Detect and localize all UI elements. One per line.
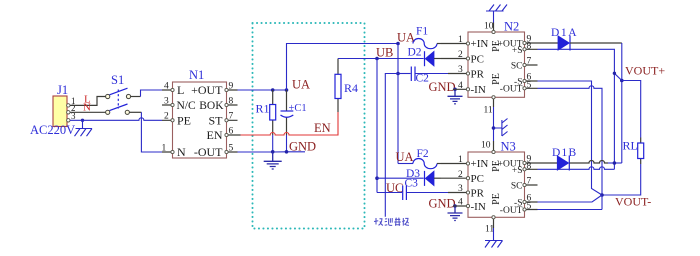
svg-text:D1B: D1B [552, 147, 577, 159]
svg-text:VOUT-: VOUT- [615, 195, 651, 209]
earth ground below J1 pin 3 [75, 119, 93, 137]
wire C2 branch left and down to share bus [385, 74, 398, 217]
power module N3 [441, 140, 538, 235]
wire S1a to N1 pin4 [131, 90, 163, 97]
wire N1 -OUT / GND row [238, 151, 306, 153]
svg-text:8: 8 [527, 161, 532, 171]
svg-text:UA: UA [396, 150, 414, 164]
svg-text:UA: UA [292, 78, 310, 92]
svg-text:+S: +S [512, 166, 523, 176]
capacitor C3 [403, 178, 448, 201]
svg-text:4: 4 [458, 81, 463, 91]
capacitor C1 (polarized) [281, 90, 307, 135]
svg-text:PE: PE [177, 113, 191, 127]
wire EN (red) from N1 pin6, hops over R1 and C1 wires [241, 112, 339, 135]
svg-text:+OUT: +OUT [191, 83, 223, 97]
node UA top rail junction [396, 42, 400, 46]
svg-text:D2: D2 [408, 47, 422, 59]
svg-text:+IN: +IN [471, 158, 489, 170]
svg-text:SC: SC [511, 61, 523, 71]
diode D1A [538, 27, 579, 51]
wire N3 +S row (hops) up to D1B row [538, 167, 615, 170]
svg-text:1: 1 [458, 35, 463, 45]
connector J1 [53, 83, 76, 127]
svg-text:J1: J1 [57, 83, 68, 97]
wire VOUT+ to RL top [622, 81, 641, 138]
svg-text:2: 2 [164, 112, 169, 122]
wire UA corner to F2 [398, 163, 413, 165]
diode D3 [377, 168, 441, 186]
wire VOUT+ vertical (D1A down to D1B row) [621, 43, 623, 163]
wire UB row from R4 top to D2 [338, 58, 424, 60]
svg-text:N/C: N/C [177, 100, 197, 112]
svg-text:3: 3 [458, 65, 463, 75]
dotted selection box [253, 23, 365, 229]
node C2 junction [396, 72, 400, 76]
wire D1A cathode to VOUT+ corner [570, 42, 622, 44]
svg-text:5: 5 [229, 143, 234, 153]
svg-text:N2: N2 [504, 20, 519, 34]
svg-text:1: 1 [458, 155, 463, 165]
svg-text:R1: R1 [256, 102, 270, 116]
svg-text:S1: S1 [111, 73, 124, 87]
wire J1 pin3 to N1 pin2 (PE), hops over N wire [70, 118, 162, 121]
svg-text:UB: UB [376, 46, 393, 60]
svg-text:F2: F2 [417, 148, 429, 160]
svg-text:11: 11 [484, 106, 493, 116]
svg-text:1: 1 [162, 143, 167, 153]
svg-text:GND: GND [289, 140, 316, 154]
svg-text:10: 10 [481, 141, 491, 151]
svg-text:F1: F1 [416, 26, 428, 38]
node D1B/+S junction [613, 161, 617, 165]
wire UA rail up and right [287, 44, 399, 91]
svg-text:PC: PC [471, 173, 484, 185]
switch S1 (ganged DPST) [106, 73, 131, 114]
PE earth (sideways) between modules [494, 119, 508, 137]
svg-text:3: 3 [164, 96, 169, 106]
svg-text:4: 4 [458, 198, 463, 208]
wire N1 +OUT row [238, 89, 287, 91]
svg-text:EN: EN [314, 121, 331, 135]
svg-text:5: 5 [527, 80, 532, 90]
wire N2 -S down to VOUT- diagonal [538, 81, 603, 195]
svg-text:PE: PE [491, 73, 502, 85]
wire UB down to D3 and UC rows [376, 59, 378, 193]
PE earth below N3 pin11 [485, 228, 503, 248]
fuse F2 [413, 148, 437, 169]
wire N2 -OUT down (hops -S wire) to VOUT- [538, 86, 603, 210]
power ground symbol [264, 152, 282, 169]
svg-text:10: 10 [484, 22, 494, 32]
svg-text:ST: ST [208, 113, 223, 127]
svg-text:-IN: -IN [471, 201, 486, 213]
node PE mid junction [492, 126, 496, 130]
wire N2 +S down, branch diagonal into VOUT+ [538, 49, 622, 169]
node UA (junction dots on +OUT row) [271, 88, 288, 92]
svg-text:7: 7 [527, 177, 532, 187]
node VOUT+ junction [620, 79, 624, 83]
svg-text:7: 7 [527, 57, 532, 67]
svg-text:SC: SC [511, 181, 523, 191]
svg-text:+C1: +C1 [289, 103, 307, 114]
svg-text:AC220V: AC220V [30, 123, 75, 137]
svg-text:N: N [83, 102, 91, 114]
resistor R4 [335, 59, 358, 113]
svg-text:8: 8 [527, 41, 532, 51]
wire R1 bottom to GND row [272, 135, 274, 152]
resistor R1 [256, 90, 276, 135]
svg-text:PC: PC [471, 54, 484, 66]
wire N3 -OUT row up to VOUT- [538, 209, 603, 211]
svg-text:PR: PR [471, 69, 485, 81]
svg-text:UA: UA [397, 31, 415, 45]
svg-text:-OUT: -OUT [500, 206, 523, 216]
svg-text:GND: GND [429, 197, 456, 211]
svg-text:-OUT: -OUT [194, 145, 223, 159]
diode D1B [538, 147, 578, 171]
svg-text:6: 6 [229, 126, 234, 136]
svg-text:EN: EN [207, 128, 223, 142]
svg-text:R4: R4 [344, 81, 358, 95]
node UB junction [375, 57, 379, 61]
svg-text:5: 5 [527, 202, 532, 212]
wire F2 to N3 pin1 [437, 163, 441, 165]
wire C1 bottom to GND row [286, 135, 288, 152]
node D3 branch [375, 176, 379, 180]
wire D1B cathode to VOUT+ vertical (hops -S and -OUT verticals) [569, 161, 608, 163]
svg-text:4: 4 [164, 81, 169, 91]
fuse F1 [413, 26, 437, 49]
svg-text:2: 2 [458, 170, 463, 180]
wire J1 pin1 to S1a [70, 97, 106, 106]
PE earth above N2 pin10 [486, 5, 507, 23]
wire J1 pin2 to S1b [70, 111, 106, 113]
wire F1 to N2 pin1 [437, 43, 441, 45]
svg-text:RL: RL [623, 139, 638, 153]
svg-text:PR: PR [471, 188, 485, 200]
svg-text:3: 3 [458, 184, 463, 194]
ground at N2 pin4 [448, 88, 463, 104]
resistor RL [623, 138, 644, 165]
svg-text:-IN: -IN [471, 84, 486, 96]
svg-text:2: 2 [458, 50, 463, 60]
svg-text:BOK: BOK [199, 100, 224, 112]
capacitor C2 [398, 67, 448, 85]
svg-text:VOUT+: VOUT+ [625, 64, 665, 78]
svg-text:+IN: +IN [471, 38, 489, 50]
svg-text:C2: C2 [416, 73, 430, 85]
svg-text:-OUT: -OUT [500, 85, 523, 95]
svg-text:+S: +S [512, 46, 523, 56]
wire RL bottom to VOUT- [602, 164, 641, 195]
power module N1 [162, 68, 241, 159]
ground at N3 pin4 [448, 204, 463, 220]
node GND junctions [271, 150, 288, 154]
svg-text:GND: GND [429, 80, 456, 94]
node VOUT- junction [600, 193, 604, 197]
svg-text:N: N [177, 145, 186, 159]
wire UA vertical down to C2 and F2 [397, 44, 399, 164]
svg-text:9: 9 [229, 81, 234, 91]
power module N2 [441, 20, 538, 116]
wire N3 -S row diagonal into VOUT- [538, 195, 603, 202]
svg-text:PE: PE [491, 160, 502, 172]
svg-text:N1: N1 [189, 68, 204, 82]
label share-bus 均流母线 (drawn strokes) [374, 218, 409, 226]
svg-text:PE: PE [491, 40, 502, 52]
wire S1b to N1 pin1 [129, 112, 162, 152]
wire UC row from UB vertical [377, 192, 402, 194]
svg-text:C3: C3 [405, 178, 419, 190]
svg-text:PE: PE [491, 193, 502, 205]
svg-text:7: 7 [229, 112, 234, 122]
svg-text:N3: N3 [501, 140, 516, 154]
diode D2 [408, 47, 442, 67]
svg-text:L: L [177, 83, 184, 97]
wire N2 pin11 to N3 pin10 [493, 107, 495, 141]
svg-text:8: 8 [229, 96, 234, 106]
svg-text:D1A: D1A [551, 27, 578, 39]
